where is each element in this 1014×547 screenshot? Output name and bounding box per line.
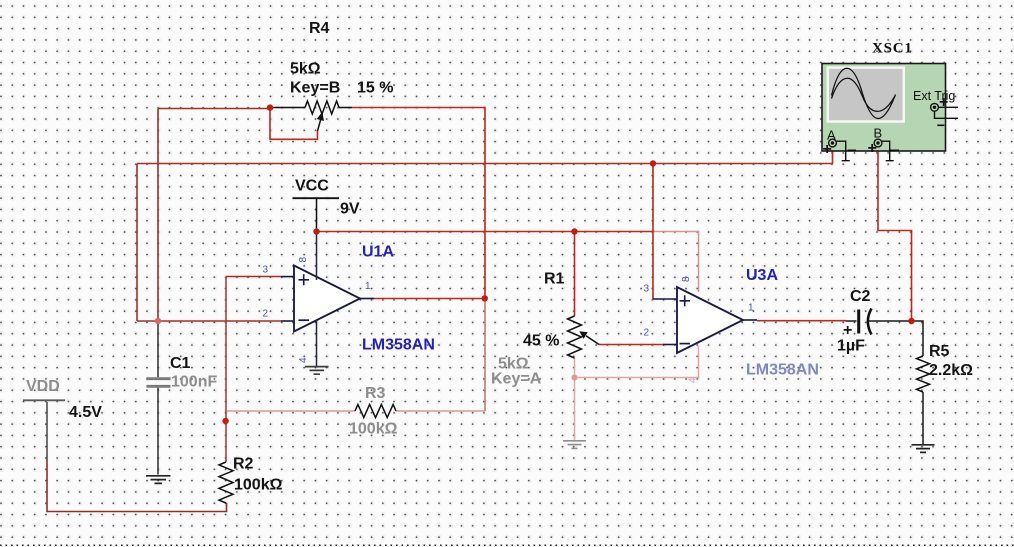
resistor R2 (219, 462, 233, 503)
wire U3A output to C2 (757, 320, 846, 322)
junction R1 bottom pale (572, 375, 578, 381)
wire scope A down (832, 147, 834, 164)
svg-text:3: 3 (644, 284, 650, 295)
svg-text:Ext Trig: Ext Trig (913, 89, 955, 103)
scope trace A (832, 68, 896, 118)
wire U3A pin2 from R1 wiper (599, 344, 663, 346)
potentiometer R1 body (568, 316, 582, 358)
svg-text:8: 8 (681, 276, 692, 282)
svg-text:VDD: VDD (26, 378, 60, 395)
wire R1 top vertical (574, 232, 576, 317)
wire net C1 top horizontal y=108 (158, 108, 270, 110)
capacitor C2 (846, 320, 857, 322)
wire R4 right to vertical x=485 (352, 108, 485, 299)
ext trig minus tick (937, 124, 944, 126)
junction U1A output (482, 295, 488, 301)
VDD symbol (23, 399, 65, 401)
ground under U1A pin4 (305, 367, 329, 375)
svg-text:2: 2 (263, 309, 269, 320)
svg-text:1: 1 (365, 281, 371, 292)
junction C2 R5 B (908, 318, 914, 324)
junction R4 left (267, 104, 273, 110)
svg-text:15 %: 15 % (357, 80, 393, 97)
svg-text:4.5V: 4.5V (69, 404, 102, 421)
wire x=485 down to R3 (484, 299, 486, 412)
svg-text:+: + (823, 141, 832, 158)
ground under R1 (563, 441, 586, 449)
svg-text:4: 4 (298, 357, 309, 363)
svg-text:4: 4 (688, 377, 699, 383)
wire long horizontal y=163 to scope A (137, 163, 833, 165)
page border dashed bottom (0, 544, 1014, 546)
junction C1 top (155, 318, 161, 324)
VCC symbol (293, 197, 339, 199)
junction R2 R3 (222, 418, 228, 424)
svg-text:R4: R4 (309, 20, 330, 37)
svg-text:C2: C2 (850, 288, 871, 305)
wire R4 wiper loop (270, 108, 318, 140)
A minus tick on box edge (848, 149, 857, 151)
terminal A (829, 139, 837, 147)
svg-text:1µF: 1µF (837, 338, 865, 355)
potentiometer R4 wiper arrow (318, 120, 321, 132)
svg-text:VCC: VCC (295, 178, 329, 195)
svg-text:100nF: 100nF (171, 374, 217, 391)
op-amp U1A (294, 266, 360, 332)
wire ext trig plus stub (938, 106, 958, 108)
svg-text:5kΩ: 5kΩ (290, 61, 321, 78)
svg-text:2: 2 (644, 328, 650, 339)
svg-text:LM358AN: LM358AN (362, 337, 435, 354)
wire vertical x=226 divider to R2 (225, 277, 227, 463)
wire short y=321 joining (137, 320, 158, 322)
terminal Ext Trig (931, 103, 939, 111)
svg-text:2.2kΩ: 2.2kΩ (929, 362, 973, 379)
junction VCC (313, 228, 319, 234)
wire B minus hook (882, 141, 894, 161)
svg-text:+: + (939, 94, 948, 111)
svg-text:+: + (868, 140, 877, 157)
oscilloscope screen (827, 66, 906, 123)
ground under R5 (912, 445, 935, 453)
svg-text:LM358AN: LM358AN (746, 362, 819, 379)
wire ext trig minus stub (935, 111, 959, 118)
svg-text:8: 8 (298, 257, 309, 263)
svg-text:R3: R3 (365, 385, 386, 402)
junction U3A plus tap (650, 160, 656, 166)
svg-text:C1: C1 (170, 355, 191, 372)
terminal B (874, 139, 882, 147)
scope trace B (832, 78, 896, 111)
svg-text:B: B (874, 126, 883, 141)
capacitor C1 (157, 321, 159, 377)
ground under C1 (146, 476, 171, 484)
wire vertical x=158 R4-left to C1 (157, 109, 159, 322)
resistor R5 (912, 321, 924, 356)
svg-text:R2: R2 (233, 456, 254, 473)
svg-text:9V: 9V (340, 201, 360, 218)
svg-text:R1: R1 (544, 271, 565, 288)
svg-text:U3A: U3A (746, 267, 778, 284)
svg-text:100kΩ: 100kΩ (234, 477, 283, 494)
resistor R3 (355, 405, 396, 418)
wire VDD to bottom rail (46, 402, 48, 460)
wire VCC pale y=231.5 to U3A pin8 (653, 232, 699, 293)
wire VCC horizontal y=231.5 (317, 231, 654, 233)
oscilloscope XSC1 box (822, 64, 946, 152)
svg-text:100kΩ: 100kΩ (349, 421, 398, 438)
wire U1A pin3 horizontal y=276.5 (226, 276, 281, 278)
wire U1A pin2 horizontal y=321 (158, 320, 281, 322)
svg-text:U1A: U1A (362, 244, 394, 261)
wire U3A pin3 vertical x=653 (652, 164, 654, 300)
potentiometer R1 wiper arrow (586, 336, 599, 345)
op-amp U3A (677, 287, 743, 353)
wire scope B down to C2 junction (878, 147, 912, 322)
wire vertical x=137 (136, 164, 138, 322)
svg-text:3: 3 (263, 265, 269, 276)
svg-text:45 %: 45 % (523, 333, 559, 350)
svg-text:Key=B: Key=B (290, 80, 340, 97)
svg-text:XSC1: XSC1 (872, 41, 913, 57)
B minus tick on box edge (891, 149, 900, 151)
junction R1 top (571, 228, 577, 234)
svg-text:R5: R5 (929, 343, 950, 360)
svg-text:+: + (843, 322, 852, 339)
wire pale pin4 net R1 bottom (575, 346, 699, 440)
svg-text:Key=A: Key=A (491, 371, 542, 388)
wire U1A output y=298.5 (374, 298, 485, 300)
wire bottom rail maroon (47, 460, 227, 512)
wire A minus hook (837, 141, 850, 161)
wire R3 pale horizontal y=411 (227, 410, 485, 412)
svg-text:1: 1 (748, 303, 754, 314)
potentiometer R4 body (270, 107, 305, 109)
